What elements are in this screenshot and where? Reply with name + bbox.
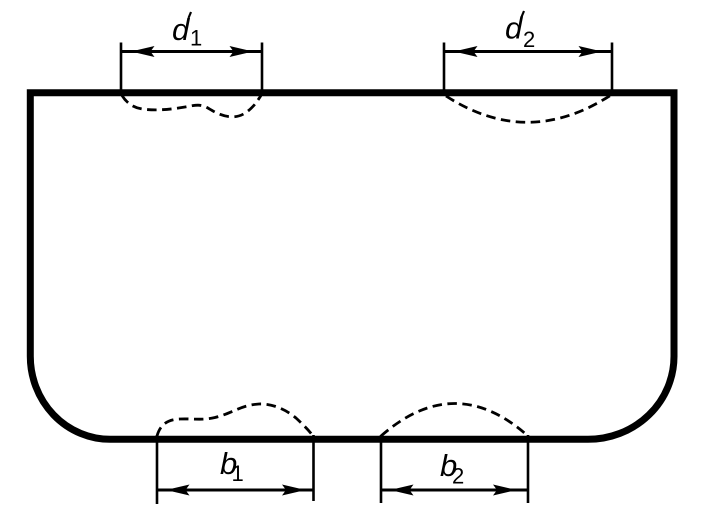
- extension line b2 left: [380, 435, 383, 503]
- arrowhead d1 right: [230, 46, 254, 57]
- extension line d2 left: [443, 43, 446, 95]
- dashed bump curve b1: [157, 404, 313, 436]
- dashed bump curve b2: [381, 404, 528, 437]
- dimension line b1: [157, 489, 314, 492]
- dimension line d1: [121, 50, 262, 53]
- extension line d2 right: [611, 43, 614, 97]
- dimension line d2: [444, 50, 612, 53]
- arrowhead b1 right: [282, 485, 306, 496]
- extension line d1 left: [120, 43, 123, 95]
- svg-text:2: 2: [452, 464, 464, 489]
- dimension line b2: [381, 489, 528, 492]
- arrowhead b2 right: [493, 485, 517, 496]
- svg-text:2: 2: [523, 27, 535, 52]
- label b1: [220, 446, 244, 486]
- arrowhead b2 left: [390, 485, 414, 496]
- arrowhead d2 right: [579, 46, 603, 57]
- dashed dent curve d2: [446, 95, 611, 122]
- label b2: [440, 448, 464, 489]
- arrowhead d2 left: [454, 46, 478, 57]
- svg-text:1: 1: [190, 26, 202, 51]
- label d1: [172, 12, 202, 51]
- extension line b2 right: [527, 435, 530, 503]
- plate outline: [30, 93, 674, 440]
- extension line b1 right: [312, 435, 315, 501]
- svg-text:1: 1: [232, 461, 244, 486]
- dashed dent curve d1: [122, 96, 261, 117]
- label d2: [505, 11, 535, 53]
- extension line b1 left: [156, 435, 159, 504]
- arrowhead b1 left: [166, 485, 190, 496]
- extension line d1 right: [261, 43, 264, 97]
- arrowhead d1 left: [131, 46, 155, 57]
